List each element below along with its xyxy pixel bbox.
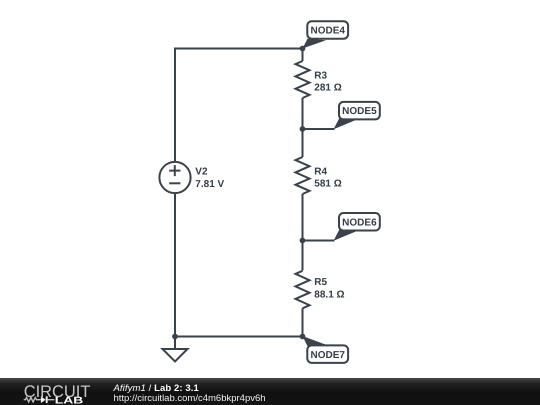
flag tail NODE6 [334, 229, 358, 241]
node flag NODE7 box [307, 345, 348, 363]
resistor R4 [296, 157, 310, 194]
flag tail NODE7 [303, 336, 327, 346]
resistor R5 [296, 271, 310, 309]
wire left vertical lower [174, 194, 176, 338]
ground stem [174, 337, 176, 350]
node flag NODE4 box [307, 21, 348, 39]
wire R4 to NODE6 [302, 194, 304, 241]
V2 plus sign [169, 165, 180, 176]
wire left vertical upper [174, 48, 176, 163]
logo diode [41, 396, 46, 403]
svg-text:281 Ω: 281 Ω [314, 83, 341, 94]
wire bottom horizontal [174, 336, 303, 338]
svg-text:NODE4: NODE4 [310, 26, 345, 37]
wire NODE6 to R5 [302, 241, 304, 271]
svg-text:R4: R4 [314, 166, 327, 177]
junction node C (NODE6) [300, 238, 306, 244]
resistor R3 [296, 61, 310, 98]
svg-text:NODE5: NODE5 [342, 106, 377, 117]
svg-text:R3: R3 [314, 70, 327, 81]
svg-text:V2: V2 [195, 167, 208, 178]
svg-text:88.1 Ω: 88.1 Ω [314, 289, 344, 300]
svg-text:LAB: LAB [55, 396, 84, 405]
junction ground node [172, 334, 178, 340]
svg-text:NODE7: NODE7 [310, 350, 345, 361]
logo resistor squiggle [24, 398, 41, 402]
svg-text:R5: R5 [314, 277, 327, 288]
footer bar [0, 378, 540, 405]
flag tail NODE5 [334, 118, 358, 130]
node flag NODE5 box [339, 102, 380, 120]
svg-text:7.81 V: 7.81 V [195, 179, 224, 190]
wire R5 to NODE7 [302, 308, 304, 336]
wire stub NODE6 [303, 240, 335, 242]
node flag NODE6 box [339, 213, 380, 231]
CircuitLab logo [20, 383, 100, 405]
svg-text:581 Ω: 581 Ω [314, 179, 341, 190]
credit line 1 [114, 384, 199, 394]
junction node A (NODE4) [300, 46, 306, 52]
wire top horizontal [175, 48, 303, 50]
wire NODE5 to R4 [302, 129, 304, 157]
flag tail NODE4 [303, 39, 327, 49]
wire right bus segment NODE4 to R3 [302, 49, 304, 62]
junction node B (NODE5) [300, 126, 306, 132]
wire R3 to NODE5 [302, 98, 304, 129]
wire stub NODE5 [303, 128, 335, 130]
junction node D (NODE7) [300, 334, 306, 340]
credit line 2 [114, 394, 266, 404]
voltage source V2 circle [159, 162, 190, 193]
svg-text:NODE6: NODE6 [342, 218, 377, 229]
ground triangle [163, 349, 188, 362]
V2 minus sign [169, 182, 180, 184]
